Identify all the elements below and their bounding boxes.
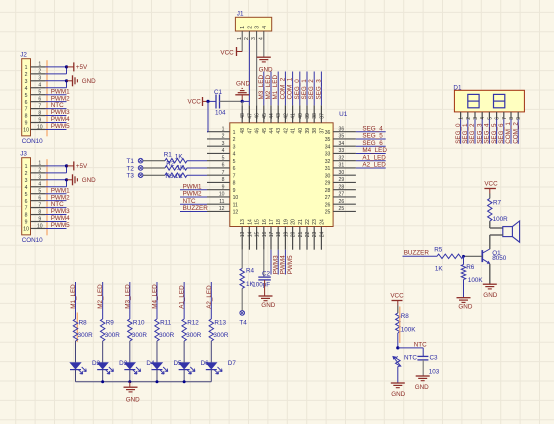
svg-text:2: 2 xyxy=(38,168,41,174)
svg-text:14: 14 xyxy=(247,219,253,225)
svg-text:2: 2 xyxy=(38,69,41,75)
wire J1 pin1 to VCC xyxy=(237,40,243,52)
svg-text:34: 34 xyxy=(339,141,345,147)
svg-text:4: 4 xyxy=(258,37,264,40)
test point T2 xyxy=(127,165,143,172)
svg-text:R4: R4 xyxy=(246,267,255,274)
svg-text:13: 13 xyxy=(240,231,246,237)
resistor R6 100K xyxy=(461,264,483,284)
wire/net label PWM3 on U1 pin 17 xyxy=(271,250,279,275)
svg-text:27: 27 xyxy=(325,195,331,201)
svg-text:300R: 300R xyxy=(186,332,202,339)
marker line R8 NTC xyxy=(399,307,401,344)
svg-text:2: 2 xyxy=(247,26,253,29)
svg-text:COM_2: COM_2 xyxy=(512,122,519,144)
svg-text:30: 30 xyxy=(339,170,345,176)
LED D6 xyxy=(179,360,210,374)
svg-text:24: 24 xyxy=(319,219,325,225)
svg-text:9: 9 xyxy=(25,220,28,226)
svg-text:J3: J3 xyxy=(20,151,27,158)
svg-text:PWM5: PWM5 xyxy=(287,255,294,274)
wire/net label PWM5 on U1 pin 19 xyxy=(285,250,293,275)
svg-text:32: 32 xyxy=(325,159,331,165)
svg-text:5: 5 xyxy=(487,117,493,120)
ground below C2 xyxy=(259,296,276,309)
svg-text:NTC: NTC xyxy=(183,198,196,205)
svg-text:13: 13 xyxy=(240,219,246,225)
svg-text:10: 10 xyxy=(23,128,29,134)
svg-text:9: 9 xyxy=(516,117,522,120)
connector J3 CON10 xyxy=(20,151,45,245)
svg-text:40: 40 xyxy=(298,128,304,134)
wire/net label PWM5 at J3 pin 10 xyxy=(46,222,71,229)
resistor R8 100K xyxy=(396,313,417,333)
svg-text:1: 1 xyxy=(38,161,41,167)
svg-text:17: 17 xyxy=(269,219,275,225)
U1 left pins 1-12 xyxy=(207,126,238,215)
svg-text:GND: GND xyxy=(259,66,273,73)
svg-text:21: 21 xyxy=(298,231,304,237)
svg-text:7: 7 xyxy=(222,170,225,176)
svg-text:U1: U1 xyxy=(339,111,348,118)
LED D7 xyxy=(206,360,237,374)
U1 right pins 36-25 xyxy=(325,126,356,215)
wire D6 to bus xyxy=(183,370,185,382)
wire/net label SEG_2 on U1 pin 39 xyxy=(307,72,315,106)
svg-text:R10: R10 xyxy=(133,320,145,327)
wire on U1 pin 37 xyxy=(320,72,322,106)
net label SEG_4 on U1 pin 36 xyxy=(356,125,386,132)
svg-text:COM_1: COM_1 xyxy=(505,122,512,144)
power ground at J3 xyxy=(67,174,97,185)
svg-text:2: 2 xyxy=(233,137,236,143)
svg-text:M2_LED: M2_LED xyxy=(97,284,104,309)
svg-text:R8: R8 xyxy=(79,320,88,327)
wire/net label SEG_0 on D1 pin 1 xyxy=(455,119,462,144)
svg-text:6: 6 xyxy=(25,199,28,205)
svg-text:6: 6 xyxy=(38,96,41,102)
svg-text:R9: R9 xyxy=(106,320,115,327)
svg-text:5: 5 xyxy=(38,189,41,195)
svg-text:7: 7 xyxy=(38,202,41,208)
wire/net label PWM1 at J2 pin 5 xyxy=(46,88,71,95)
svg-text:PWM1: PWM1 xyxy=(183,183,202,190)
svg-text:R12: R12 xyxy=(187,320,199,327)
svg-text:GND: GND xyxy=(82,78,96,85)
wire to R6 xyxy=(463,256,465,264)
wire D7 to bus xyxy=(210,370,212,382)
ground at J1 pin4 xyxy=(257,57,273,73)
wire/net label SEG_1 on D1 pin 2 xyxy=(462,119,469,144)
svg-text:9: 9 xyxy=(222,184,225,190)
transistor Q1 8050 xyxy=(482,249,506,264)
svg-text:26: 26 xyxy=(325,202,331,208)
svg-text:NTC: NTC xyxy=(414,342,427,349)
svg-text:33: 33 xyxy=(325,152,331,158)
svg-text:27: 27 xyxy=(339,192,345,198)
svg-text:1: 1 xyxy=(25,65,28,71)
svg-text:7: 7 xyxy=(233,173,236,179)
svg-text:7: 7 xyxy=(38,103,41,109)
svg-text:100R: 100R xyxy=(493,216,509,223)
wire Q1 emitter to ground xyxy=(489,264,491,284)
wire/net label PWM1 at J3 pin 5 xyxy=(46,187,71,194)
resistor R4 1K xyxy=(240,267,255,288)
wire/net label SEG_1 on U1 pin 40 xyxy=(300,72,308,106)
svg-text:SEG_4: SEG_4 xyxy=(484,123,491,144)
wire/net label SEG_6 on D1 pin 7 xyxy=(498,119,505,144)
wire/net label PWM2 at J3 pin 6 xyxy=(46,194,71,201)
svg-text:2: 2 xyxy=(25,72,28,78)
capacitor C1 104 xyxy=(206,89,242,117)
wire J2 pins 1-2 to +5V xyxy=(46,65,69,74)
net label A2_LED on U1 pin 31 xyxy=(356,162,386,169)
svg-text:C1: C1 xyxy=(214,89,223,96)
svg-text:R8: R8 xyxy=(401,313,410,320)
svg-text:1: 1 xyxy=(38,62,41,68)
svg-text:PWM5: PWM5 xyxy=(51,123,70,130)
svg-text:42: 42 xyxy=(283,113,289,119)
svg-text:2: 2 xyxy=(222,134,225,140)
svg-text:4: 4 xyxy=(480,117,486,120)
wire R8 to junction xyxy=(396,333,399,350)
svg-text:8: 8 xyxy=(233,181,236,187)
svg-text:GND: GND xyxy=(483,292,497,299)
LED D5 xyxy=(151,360,182,374)
marker line J2 xyxy=(46,60,48,136)
wire J3 pins 1-2 to +5V xyxy=(46,164,69,173)
svg-text:GND: GND xyxy=(82,177,96,184)
svg-text:46: 46 xyxy=(255,113,261,119)
wire D4 to bus xyxy=(129,370,131,382)
svg-text:3: 3 xyxy=(233,144,236,150)
capacitor C3 103 xyxy=(417,354,439,375)
svg-text:VCC: VCC xyxy=(484,180,498,187)
wire/net label COM_2 on U1 pin 43 xyxy=(278,72,286,106)
svg-text:42: 42 xyxy=(283,128,289,134)
svg-text:T4: T4 xyxy=(239,319,247,326)
svg-text:43: 43 xyxy=(276,113,282,119)
marker line R8 xyxy=(76,313,78,343)
svg-text:8050: 8050 xyxy=(492,255,507,262)
svg-text:47: 47 xyxy=(247,128,253,134)
wire/net label M1_LED on U1 pin 44 xyxy=(271,72,279,106)
U1 top pins 48-37 xyxy=(240,105,325,133)
svg-text:T3: T3 xyxy=(127,173,135,180)
wire/net label PWM4 on U1 pin 18 xyxy=(278,250,286,275)
connector J2 CON10 xyxy=(20,52,45,146)
svg-text:11: 11 xyxy=(233,202,238,208)
svg-text:R6: R6 xyxy=(466,264,475,271)
svg-text:32: 32 xyxy=(339,155,345,161)
svg-text:9: 9 xyxy=(38,117,41,123)
resistor R7 100R xyxy=(488,198,509,223)
svg-text:5: 5 xyxy=(222,155,225,161)
resistor R13 300R xyxy=(209,319,229,341)
power ground at J2 xyxy=(67,75,97,86)
wire R12 to D6 xyxy=(183,341,185,362)
test point T3 xyxy=(127,173,143,180)
wire/net label M2_LED on U1 pin 45 xyxy=(264,72,272,106)
svg-text:NTC: NTC xyxy=(404,354,417,361)
wire R3 to U1 pin 7 xyxy=(187,174,207,176)
svg-text:3: 3 xyxy=(255,26,261,29)
power VCC at R8 xyxy=(390,292,404,313)
svg-text:VCC: VCC xyxy=(188,98,202,105)
wire J1 pin2 to U1 pin47 xyxy=(248,40,250,105)
speaker LS1 xyxy=(503,221,520,242)
svg-text:R7: R7 xyxy=(493,200,502,207)
net label NTC on U1 pin 11 xyxy=(180,198,207,205)
svg-text:BUZZER: BUZZER xyxy=(183,205,209,212)
svg-text:8: 8 xyxy=(222,177,225,183)
svg-text:7: 7 xyxy=(25,206,28,212)
svg-text:16: 16 xyxy=(262,219,268,225)
wire T2 to R2 xyxy=(143,167,165,169)
svg-text:39: 39 xyxy=(305,113,311,119)
power +5V at J2 xyxy=(67,62,88,71)
svg-text:PWM1: PWM1 xyxy=(51,88,70,95)
wire D3 to bus xyxy=(102,370,104,382)
svg-text:M3_LED: M3_LED xyxy=(124,284,131,309)
resistor R11 300R xyxy=(155,319,175,341)
svg-text:A2_LED: A2_LED xyxy=(362,162,386,169)
svg-text:GND: GND xyxy=(236,81,250,88)
net label BUZZER wire xyxy=(403,250,438,257)
svg-text:SEG_5: SEG_5 xyxy=(362,133,383,140)
svg-text:PWM2: PWM2 xyxy=(51,194,70,201)
svg-text:30: 30 xyxy=(325,173,331,179)
wire/net label M4_LED LED column 4 xyxy=(151,282,158,319)
svg-text:4: 4 xyxy=(25,86,28,92)
svg-text:SEG_5: SEG_5 xyxy=(491,123,498,144)
power VCC at C1 xyxy=(188,97,208,106)
svg-text:3: 3 xyxy=(38,175,41,181)
svg-text:6: 6 xyxy=(25,100,28,106)
wire/net label M1_LED LED column 1 xyxy=(70,282,77,319)
svg-text:8: 8 xyxy=(509,117,515,120)
svg-text:20: 20 xyxy=(291,219,297,225)
wire R9 to D3 xyxy=(102,341,104,362)
wire/net label PWM4 at J2 pin 9 xyxy=(46,116,71,123)
net label M3_LED on U1 pin 46 xyxy=(258,75,265,100)
svg-text:3: 3 xyxy=(38,76,41,82)
svg-text:PWM3: PWM3 xyxy=(51,208,70,215)
svg-text:23: 23 xyxy=(312,219,318,225)
test point T4 xyxy=(239,311,247,327)
svg-text:10: 10 xyxy=(23,227,29,233)
power VCC at J1 xyxy=(220,47,236,56)
LED D3 xyxy=(97,360,128,374)
svg-text:28: 28 xyxy=(325,188,331,194)
wire R5 to Q1 base xyxy=(462,255,482,258)
wire/net label SEG_2 on D1 pin 3 xyxy=(469,119,476,144)
svg-text:45: 45 xyxy=(262,128,268,134)
svg-text:7: 7 xyxy=(25,107,28,113)
svg-text:PWM3: PWM3 xyxy=(51,109,70,116)
wire R1 to U1 pin 5 xyxy=(187,160,207,162)
svg-text:M1_LED: M1_LED xyxy=(70,284,77,309)
wire/net label SEG_5 on D1 pin 6 xyxy=(491,119,498,144)
svg-text:R13: R13 xyxy=(214,320,226,327)
svg-text:300R: 300R xyxy=(132,332,148,339)
wire J1 pin3 to U1 pin46 xyxy=(256,40,258,105)
svg-text:GND: GND xyxy=(126,397,140,404)
wire R13 to D7 xyxy=(210,341,212,362)
wire R2 to U1 pin 6 xyxy=(187,167,207,169)
wire/net label SEG_4 on D1 pin 5 xyxy=(484,119,491,144)
svg-text:CON10: CON10 xyxy=(22,138,43,145)
svg-text:8: 8 xyxy=(38,209,41,215)
svg-text:35: 35 xyxy=(325,137,331,143)
wire/net label A2_LED LED column 6 xyxy=(206,282,213,319)
svg-text:24: 24 xyxy=(319,231,325,237)
svg-text:38: 38 xyxy=(312,128,318,134)
ground below thermistor xyxy=(391,383,406,398)
svg-text:36: 36 xyxy=(325,130,331,136)
wire U1 pin16 to C2 xyxy=(263,250,265,277)
resistor R3 1K xyxy=(165,173,187,180)
svg-text:12: 12 xyxy=(233,210,239,216)
svg-text:300R: 300R xyxy=(159,332,175,339)
svg-text:5: 5 xyxy=(233,159,236,165)
svg-text:NTC: NTC xyxy=(51,102,64,109)
U1 bottom pins 13-24 xyxy=(240,219,325,250)
svg-text:9: 9 xyxy=(25,121,28,127)
svg-text:3: 3 xyxy=(25,79,28,85)
svg-text:300R: 300R xyxy=(213,332,229,339)
power +5V at J3 xyxy=(67,161,88,170)
svg-text:M4_LED: M4_LED xyxy=(151,284,158,309)
svg-text:43: 43 xyxy=(276,128,282,134)
svg-text:NTC: NTC xyxy=(51,201,64,208)
svg-text:18: 18 xyxy=(276,219,282,225)
svg-text:7: 7 xyxy=(502,117,508,120)
svg-text:5: 5 xyxy=(25,93,28,99)
svg-text:37: 37 xyxy=(319,128,325,134)
svg-text:45: 45 xyxy=(262,113,268,119)
wire/net label PWM3 at J2 pin 8 xyxy=(46,109,71,116)
wire R8 to D2 xyxy=(75,341,77,362)
svg-text:18: 18 xyxy=(276,231,282,237)
svg-text:GND: GND xyxy=(415,384,429,391)
svg-text:PWM2: PWM2 xyxy=(183,191,202,198)
svg-text:48: 48 xyxy=(240,128,246,134)
svg-text:R1: R1 xyxy=(164,152,173,159)
wire/net label M3_LED LED column 3 xyxy=(124,282,131,319)
wire C3 to ground xyxy=(422,360,424,376)
svg-text:CON10: CON10 xyxy=(22,237,43,244)
svg-text:48: 48 xyxy=(240,113,246,119)
wire C1 to U1 pin48 xyxy=(241,100,250,106)
wire/net label NTC at J2 pin 7 xyxy=(46,102,67,109)
svg-text:31: 31 xyxy=(339,163,345,169)
wire J1 pin4 to ground xyxy=(263,40,265,57)
svg-text:6: 6 xyxy=(495,117,501,120)
svg-text:14: 14 xyxy=(247,231,253,237)
svg-text:2: 2 xyxy=(244,37,250,40)
resistor R5 1K xyxy=(434,247,463,273)
wire/net label SEG_0 on U1 pin 41 xyxy=(293,72,301,106)
wire/net label SEG_3 on D1 pin 4 xyxy=(476,119,483,144)
wire/net label NTC at J3 pin 7 xyxy=(46,201,67,208)
svg-text:37: 37 xyxy=(319,113,325,119)
svg-text:44: 44 xyxy=(269,128,275,134)
svg-text:5: 5 xyxy=(38,90,41,96)
svg-text:3: 3 xyxy=(222,141,225,147)
svg-text:20: 20 xyxy=(291,231,297,237)
svg-text:PWM2: PWM2 xyxy=(51,95,70,102)
svg-text:10: 10 xyxy=(219,192,225,198)
svg-text:35: 35 xyxy=(339,134,345,140)
resistor R9 300R xyxy=(100,319,120,341)
svg-text:GND: GND xyxy=(261,302,275,309)
wire VCC to U1 pin1 xyxy=(207,101,208,131)
capacitor C2 100pF xyxy=(252,270,270,288)
svg-text:A1_LED: A1_LED xyxy=(179,285,186,309)
svg-text:SEG_3: SEG_3 xyxy=(476,123,483,144)
net label PWM1 on U1 pin 9 xyxy=(180,183,207,190)
ground below R6 xyxy=(457,298,473,311)
svg-text:21: 21 xyxy=(298,219,304,225)
svg-text:1: 1 xyxy=(237,37,243,40)
svg-text:100K: 100K xyxy=(468,277,484,284)
svg-text:16: 16 xyxy=(262,231,268,237)
svg-text:6: 6 xyxy=(222,163,225,169)
svg-text:SEG_4: SEG_4 xyxy=(362,125,383,132)
svg-text:8: 8 xyxy=(25,213,28,219)
svg-text:28: 28 xyxy=(339,184,345,190)
svg-text:4: 4 xyxy=(38,182,41,188)
svg-text:22: 22 xyxy=(305,219,311,225)
wire/net label COM_1 on D1 pin 8 xyxy=(505,119,512,144)
wire T3 to R3 xyxy=(143,174,165,176)
resistor R8 300R xyxy=(73,319,93,341)
net label NTC wire xyxy=(398,342,427,356)
wire/net label PWM3 at J3 pin 8 xyxy=(46,208,71,215)
svg-text:9: 9 xyxy=(233,188,236,194)
svg-text:41: 41 xyxy=(291,113,297,119)
svg-text:12: 12 xyxy=(219,206,225,212)
net label PWM2 on U1 pin 10 xyxy=(180,191,207,198)
LED D4 xyxy=(124,360,155,374)
svg-text:1: 1 xyxy=(233,130,236,136)
svg-text:+5V: +5V xyxy=(76,64,88,71)
ground below LED array xyxy=(124,382,141,404)
svg-text:J1: J1 xyxy=(237,11,244,18)
svg-text:SEG_1: SEG_1 xyxy=(462,123,469,144)
svg-text:SEG_2: SEG_2 xyxy=(469,123,476,144)
wire J3 pins 3-4 to GND xyxy=(46,178,69,187)
svg-text:A2_LED: A2_LED xyxy=(206,285,213,309)
svg-text:+5V: +5V xyxy=(76,163,88,170)
svg-text:4: 4 xyxy=(25,185,28,191)
svg-text:8: 8 xyxy=(25,114,28,120)
svg-text:26: 26 xyxy=(339,199,345,205)
svg-text:40: 40 xyxy=(298,113,304,119)
svg-text:M4_LED: M4_LED xyxy=(362,147,387,154)
svg-text:31: 31 xyxy=(325,166,331,172)
net label SEG_5 on U1 pin 35 xyxy=(356,133,386,140)
svg-text:29: 29 xyxy=(325,181,331,187)
svg-text:39: 39 xyxy=(305,128,311,134)
svg-text:4: 4 xyxy=(262,26,268,29)
wire D5 to bus xyxy=(156,370,158,382)
wire thermistor to ground xyxy=(397,367,399,383)
svg-text:1: 1 xyxy=(25,164,28,170)
svg-text:J2: J2 xyxy=(20,52,27,59)
wire J2 pins 3-4 to GND xyxy=(46,79,69,88)
